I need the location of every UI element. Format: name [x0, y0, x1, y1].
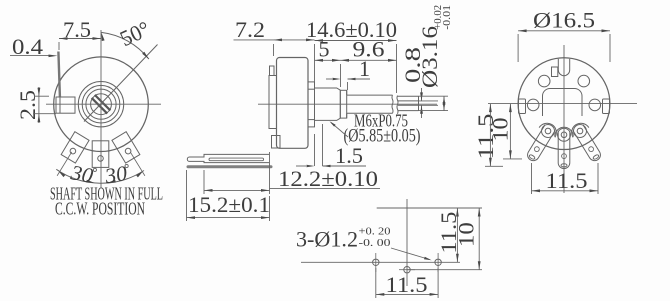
- svg-text:3-Ø1.2: 3-Ø1.2: [296, 227, 358, 252]
- svg-text:1: 1: [359, 56, 370, 81]
- side view terminals: [187, 154, 271, 166]
- front view CCW indicator line: [84, 45, 158, 122]
- pcb hole right: [435, 253, 441, 272]
- dimension 5 and 9.6: [315, 37, 397, 88]
- front view vertical centerline: [100, 30, 102, 188]
- dimension dia 16.5: [518, 8, 610, 63]
- pcb center vertical line: [406, 199, 408, 286]
- side view shaft break: [392, 95, 398, 114]
- svg-text:2.5: 2.5: [15, 90, 40, 120]
- dimension 7.5: [59, 17, 101, 50]
- dimension rear 11.5 bottom: [532, 163, 599, 194]
- svg-text:12.2±0.10: 12.2±0.10: [278, 166, 378, 191]
- pcb hole left: [373, 253, 379, 272]
- svg-text:Ø3.16: Ø3.16: [417, 26, 442, 88]
- svg-text:11.5: 11.5: [546, 168, 588, 193]
- pcb top reference line: [377, 207, 482, 209]
- dimension rear 10 left: [487, 104, 522, 159]
- dimension 15.2: [187, 170, 271, 221]
- rear view lug center: [555, 127, 574, 168]
- dimension rear 11.5 left: [473, 104, 503, 167]
- dimension 2.5: [15, 87, 56, 123]
- dimension 0.8: [400, 47, 438, 118]
- rear view body circle: [518, 58, 610, 150]
- rear view horizontal centerline: [488, 103, 637, 105]
- svg-text:Ø16.5: Ø16.5: [533, 8, 595, 33]
- front view side tab: [56, 97, 75, 113]
- rear view vertical centerline: [563, 45, 565, 193]
- extension rays 30deg: [57, 152, 145, 176]
- pcb side holes line: [301, 261, 460, 263]
- front view terminal left: [61, 132, 89, 163]
- svg-text:7.2: 7.2: [235, 17, 265, 42]
- rear view top notch: [552, 59, 570, 77]
- side view cover plate: [269, 66, 280, 148]
- svg-text:10: 10: [487, 118, 512, 142]
- label M6xP0.75: [330, 111, 421, 147]
- rear view lug left: [522, 120, 559, 165]
- front view terminal center: [92, 141, 109, 168]
- dimension pcb 11.5 horizontal: [376, 268, 438, 298]
- dimension 0.4: [10, 34, 58, 59]
- front view body circle: [54, 57, 149, 152]
- text SHAFT SHOWN IN FULL: [50, 184, 163, 204]
- svg-text:15.2±0.1: 15.2±0.1: [188, 192, 270, 217]
- dimension 50deg: [101, 16, 153, 59]
- side view bushing: [315, 88, 341, 120]
- side view centerline: [258, 103, 437, 105]
- front view shaft slot: [92, 95, 111, 114]
- rear view lug right: [568, 120, 605, 165]
- side view body: [277, 58, 309, 149]
- text 30 right: [102, 161, 129, 189]
- label 3-dia1.2: [296, 226, 432, 261]
- text CCW POSITION: [55, 199, 145, 219]
- svg-text:10: 10: [453, 222, 478, 247]
- front view shaft circles: [78, 82, 123, 127]
- rear view crimp tab right: [603, 99, 610, 114]
- svg-text:50°: 50°: [116, 16, 154, 51]
- dimension pcb 11.5 vertical: [436, 208, 461, 262]
- dimension arc 30/30: [56, 169, 144, 183]
- side view tip slot: [398, 101, 419, 105]
- side view shaft: [347, 90, 393, 118]
- front view horizontal centerline: [46, 103, 161, 105]
- svg-text:5: 5: [319, 37, 330, 62]
- dimension dia 3.16: [417, 5, 453, 111]
- svg-text:+0. 20: +0. 20: [359, 226, 392, 238]
- side view shaft tip: [398, 96, 419, 110]
- svg-text:11.5: 11.5: [386, 272, 428, 297]
- pcb center hole line: [407, 269, 482, 271]
- dimension 12.2: [204, 152, 380, 194]
- front view terminal right: [112, 132, 140, 163]
- side view bushing ring: [340, 90, 346, 118]
- svg-text:-0. 00: -0. 00: [359, 237, 392, 249]
- rear view holes: [527, 75, 600, 110]
- rear view crimp tab left: [519, 99, 526, 114]
- side view flange stubs: [308, 82, 315, 127]
- dimension 7.2: [234, 17, 315, 56]
- text 30 left: [68, 160, 96, 188]
- rear view inner dome: [543, 89, 583, 117]
- svg-text:1.5: 1.5: [335, 143, 363, 168]
- dimension 14.6: [306, 17, 397, 93]
- svg-text:-0.01: -0.01: [441, 5, 453, 30]
- dimension 1.5: [296, 124, 366, 168]
- pcb hole center: [399, 267, 415, 273]
- dimension pcb 10 vertical: [453, 208, 480, 270]
- dimension 1: [326, 56, 370, 90]
- svg-text:C.C.W. POSITION: C.C.W. POSITION: [55, 199, 145, 219]
- front view 0.4 lug line: [58, 52, 60, 97]
